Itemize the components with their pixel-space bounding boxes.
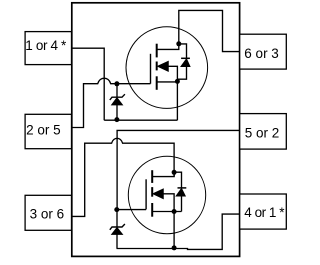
svg-text:6 or 3: 6 or 3	[244, 46, 279, 61]
node dot: Q2 gate node	[114, 207, 119, 212]
node dot: Q2 source node	[172, 209, 177, 214]
transistor Q2 substrate arrow	[153, 189, 164, 199]
wire: pin 3or6 to Q2 drain (with crossover hump)	[72, 138, 174, 216]
transistor Q2 gate lead	[117, 209, 146, 211]
transistor Q2 drain lead	[152, 172, 174, 176]
pin box 1 or 4 *	[25, 32, 71, 65]
svg-text:1 or 4 *: 1 or 4 *	[25, 38, 67, 53]
wire: top source rail	[104, 119, 177, 121]
transistor Q1 circle (top MOSFET envelope)	[126, 27, 208, 109]
pin box 2 or 5	[25, 114, 71, 148]
node dot: Q1 drain node	[176, 41, 181, 46]
transistor Q2 source lead	[152, 211, 181, 213]
svg-text:5 or 2: 5 or 2	[245, 126, 280, 141]
wire: Q1 drain to pin 6or3	[179, 10, 240, 51]
transistor Q1 source lead	[157, 81, 178, 83]
pin box 3 or 6	[25, 195, 71, 230]
node dot: Q2 source rail junction	[172, 245, 177, 250]
zener diode Z2 (gate-source protection)	[116, 210, 118, 227]
transistor Q2 circle (bottom MOSFET envelope)	[128, 156, 205, 233]
node dot: Q2 drain node	[172, 170, 177, 175]
transistor Q2 channel segments	[151, 170, 153, 183]
node dot: Z1 anode / source rail	[114, 117, 119, 122]
svg-text:2 or 5: 2 or 5	[26, 122, 61, 137]
svg-text:4 or 1 *: 4 or 1 *	[244, 205, 285, 220]
node dot: Q1 source node	[175, 79, 180, 84]
transistor Q1 drain lead	[157, 44, 179, 50]
pin box 6 or 3	[240, 34, 287, 69]
transistor Q1 channel segments	[156, 44, 158, 58]
body diode D1 (drain-source)	[179, 44, 187, 58]
wire: pin 5or2 to Q2 gate rail	[117, 130, 240, 209]
body diode D2 (drain-source)	[174, 172, 181, 188]
zener diode Z1 (gate-source protection)	[116, 84, 118, 97]
transistor Q1 substrate arrow	[158, 61, 169, 71]
transistor Q1 gate bar	[150, 54, 152, 84]
wire: pin 1or4 to top source rail	[72, 48, 104, 120]
node dot: Q1 gate node	[114, 81, 119, 86]
svg-text:3 or 6: 3 or 6	[30, 207, 65, 222]
pin box 5 or 2	[240, 114, 287, 150]
pin box 4 or 1 *	[240, 194, 287, 229]
wire: bottom source rail to pin 4or1	[117, 214, 240, 249]
transistor Q2 gate bar	[145, 179, 147, 209]
wire: pin 2or5 to Q1 gate (with crossover hump)	[72, 78, 151, 127]
IC package outline	[72, 3, 240, 257]
